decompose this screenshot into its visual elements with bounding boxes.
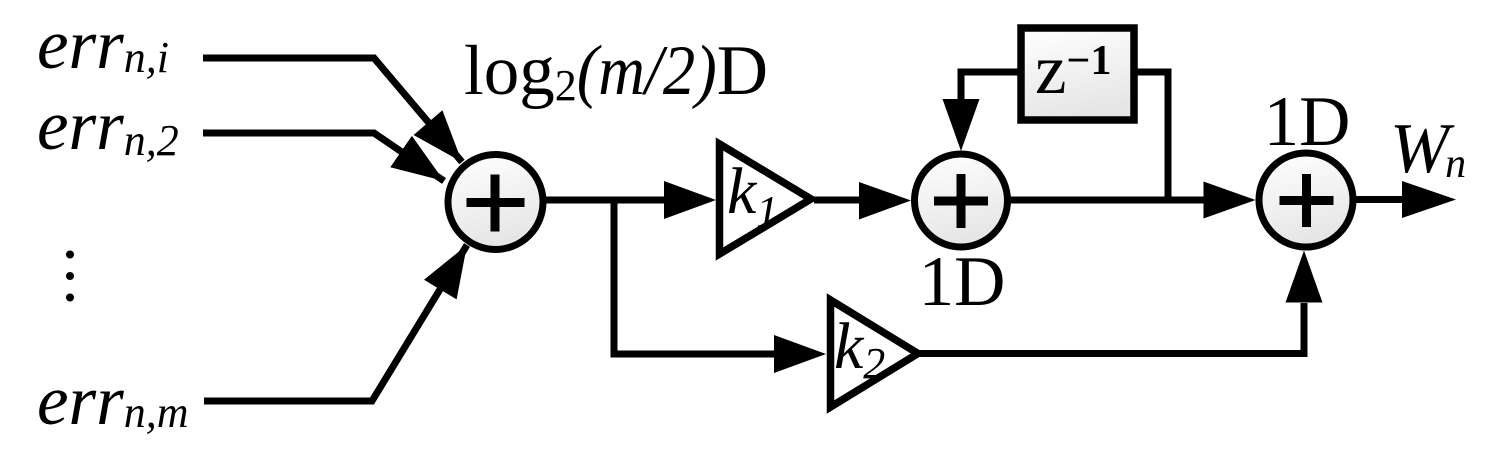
arrowhead err_n,i [414, 110, 462, 162]
wire z^-1 output down into U2 [961, 72, 1020, 103]
svg-text:log2(m/2)D: log2(m/2)D [464, 32, 768, 110]
svg-text:errn,i: errn,i [37, 6, 169, 84]
wire err_n,m to adder U1 [204, 245, 467, 401]
wire branch down to k2 [614, 200, 777, 354]
arrowhead into U2 [859, 182, 911, 220]
wire junction to z^-1 input [1135, 72, 1168, 200]
arrowhead err_n,2 [390, 136, 444, 181]
wire U1 to k1 [541, 197, 668, 204]
svg-text:1D: 1D [919, 243, 1006, 321]
wire U3 output [1352, 196, 1410, 203]
arrowhead into k2 [774, 335, 826, 373]
wire k1 to adder U2 [814, 197, 866, 204]
arrowhead down into U2 [943, 99, 980, 151]
svg-text:k1: k1 [727, 155, 778, 236]
wire U2 to adder U3 [1008, 197, 1212, 204]
arrowhead into U3 [1204, 182, 1256, 219]
arrowhead err_n,m [424, 245, 467, 299]
svg-text:errn,2: errn,2 [37, 87, 179, 165]
ellipsis dots [66, 251, 74, 302]
svg-text:Wn: Wn [1390, 110, 1466, 188]
arrowhead up into U3 [1286, 251, 1323, 303]
wire err_n,i to adder U1 [203, 58, 462, 162]
arrowhead output [1402, 181, 1456, 218]
arrowhead into k1 [664, 181, 716, 219]
amplifier k2 [831, 300, 919, 407]
amplifier k1 [720, 144, 812, 254]
delay block z^-1 [1021, 28, 1134, 120]
svg-text:errn,m: errn,m [37, 362, 189, 440]
svg-text:k2: k2 [834, 310, 885, 388]
adder U3 [1259, 153, 1353, 247]
wire err_n,2 to adder U1 [203, 133, 444, 181]
adder U1 [448, 155, 543, 250]
svg-text:1D: 1D [1264, 83, 1351, 161]
wire k2 to U3 bottom [917, 303, 1304, 354]
adder U2 [915, 154, 1008, 247]
